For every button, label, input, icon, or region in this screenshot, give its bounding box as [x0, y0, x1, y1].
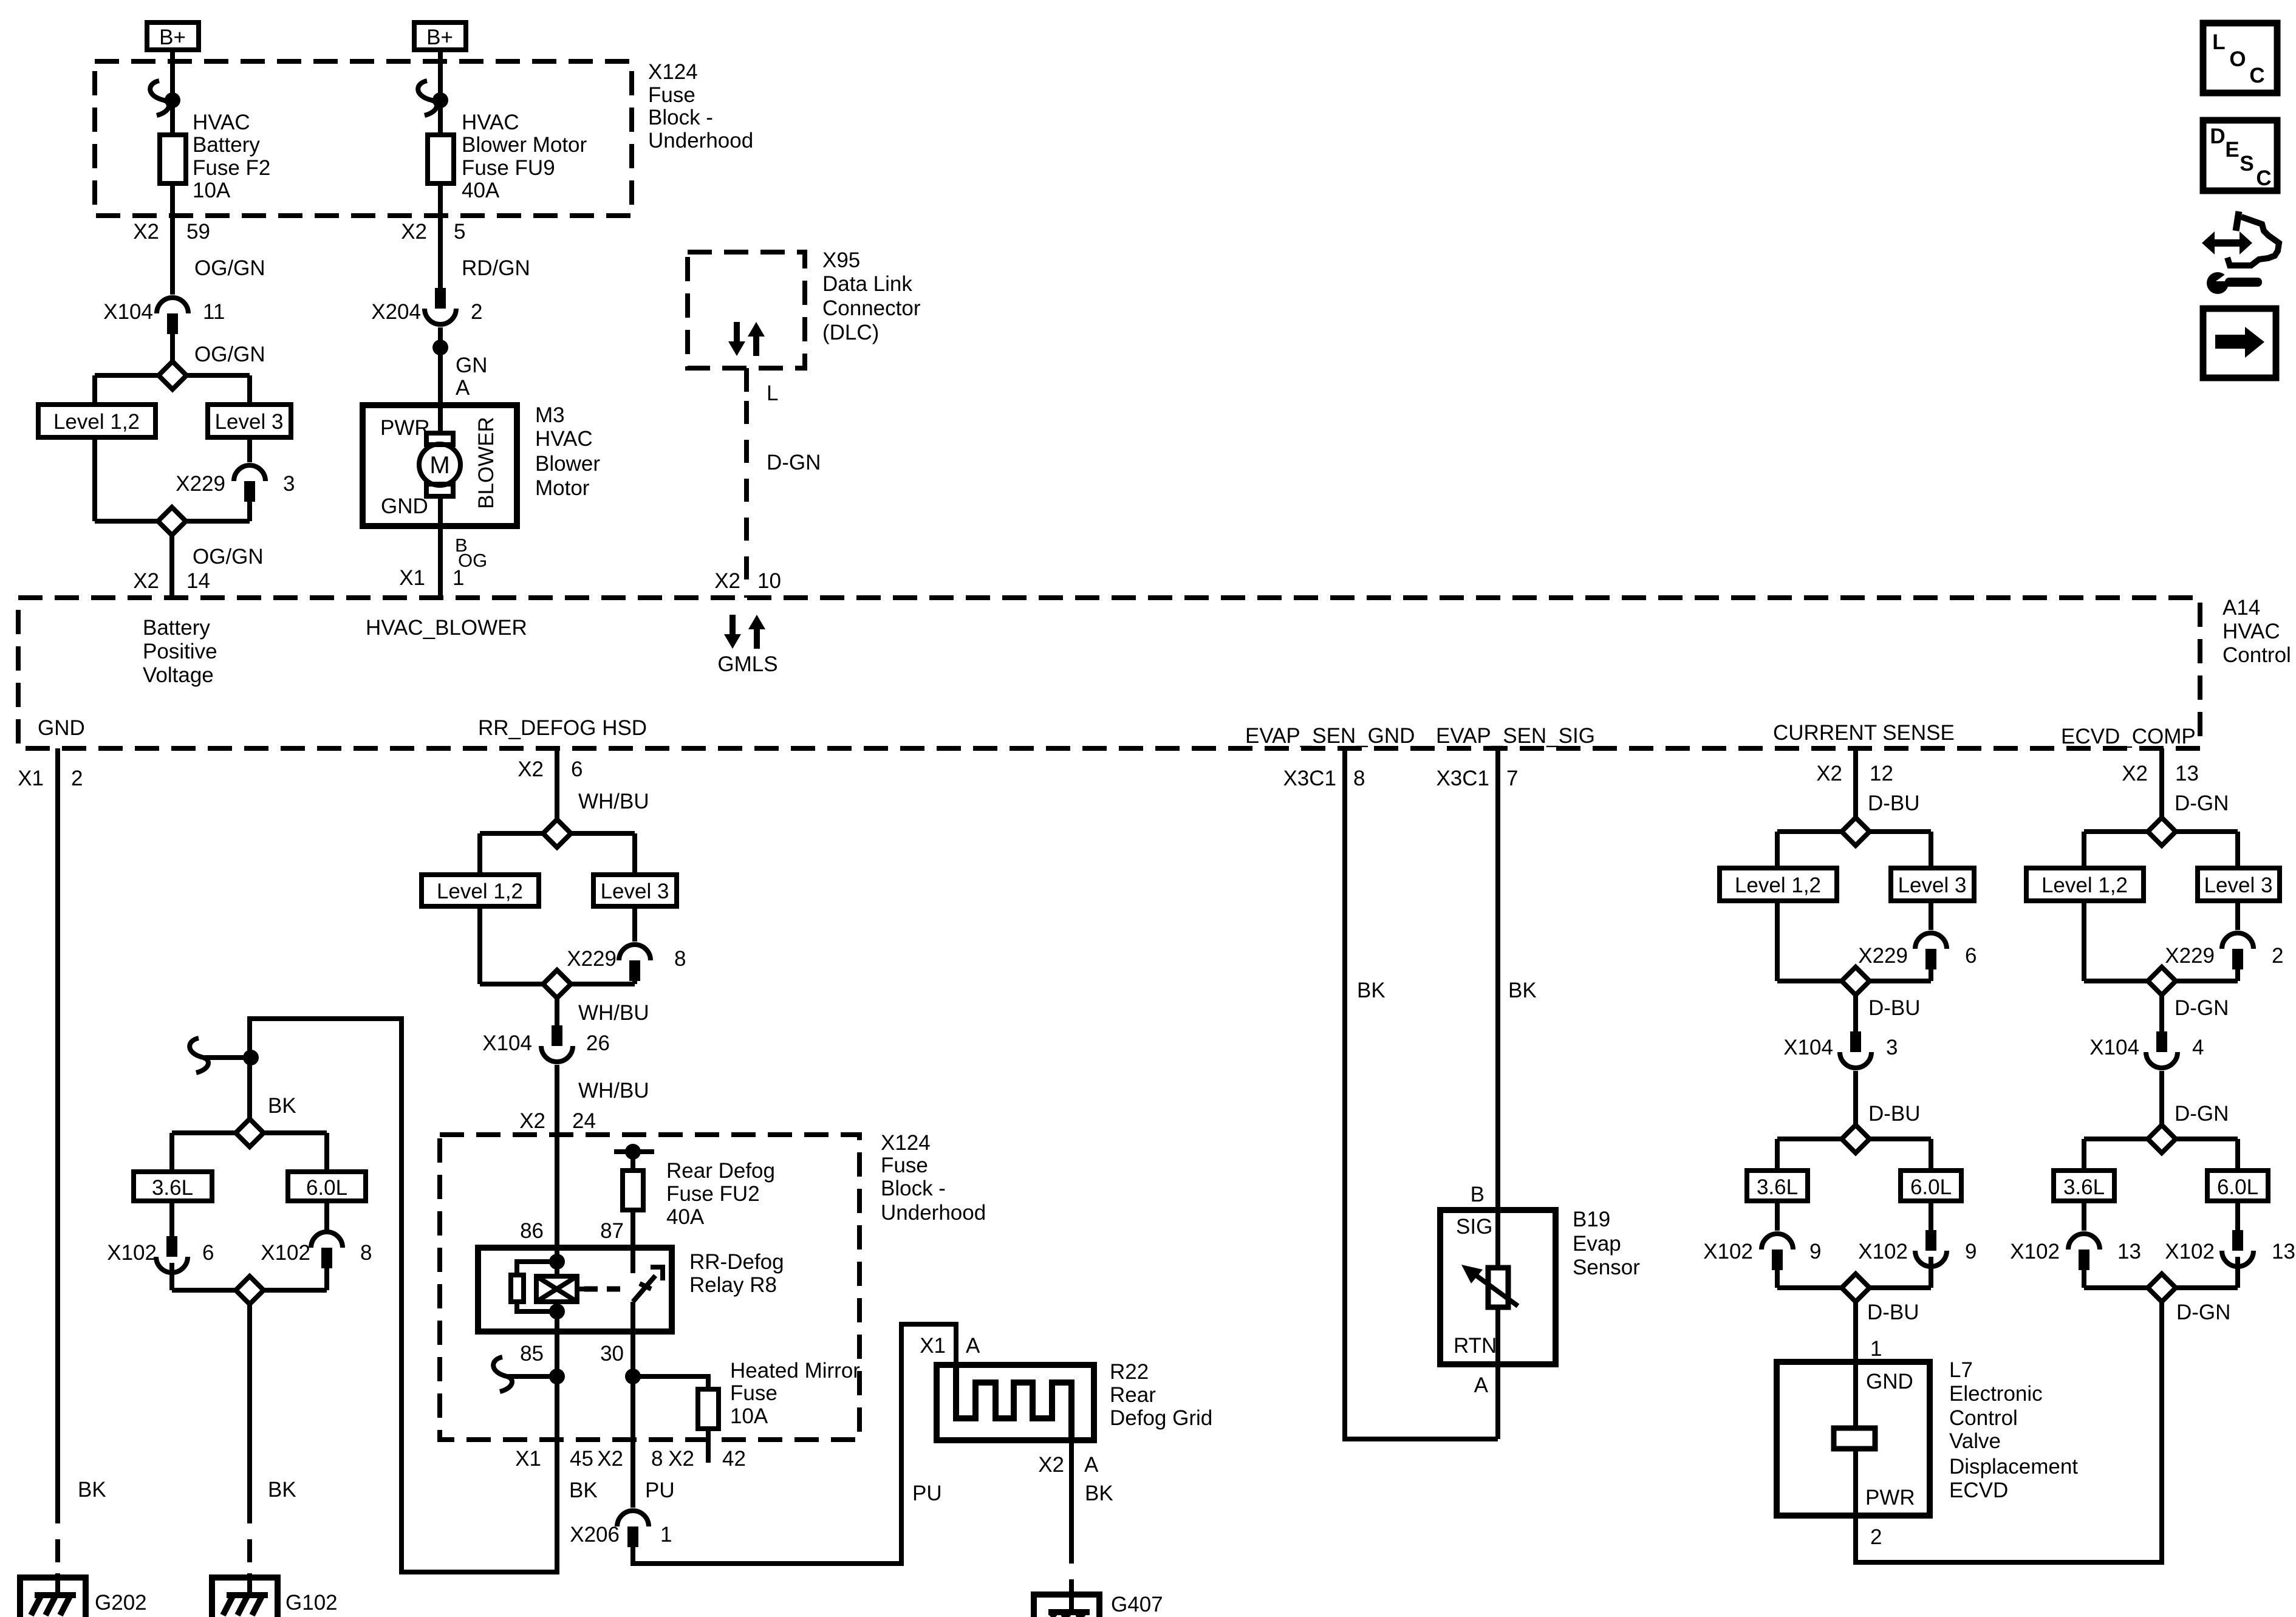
- svg-text:Control: Control: [1949, 1406, 2018, 1430]
- svg-text:Fuse FU9: Fuse FU9: [462, 156, 555, 180]
- svg-text:RR-Defog: RR-Defog: [689, 1250, 784, 1274]
- svg-text:Valve: Valve: [1949, 1429, 2001, 1453]
- svg-text:3.6L: 3.6L: [2063, 1175, 2105, 1199]
- net GMLS with arrows: [717, 615, 777, 676]
- svg-text:13: 13: [2175, 762, 2199, 785]
- splice diamond (engine split): [172, 1119, 327, 1147]
- svg-text:6: 6: [1965, 944, 1977, 968]
- svg-text:Level 1,2: Level 1,2: [53, 410, 140, 434]
- wire merge to connector X104 pin 26, WH/BU: [557, 998, 649, 1026]
- wire X104-26 to fuse block X2-24, WH/BU: [519, 1065, 649, 1248]
- svg-text:40A: 40A: [462, 179, 500, 202]
- svg-text:X229: X229: [567, 947, 617, 971]
- wire to 3.6L (current sense): [1775, 1139, 1780, 1171]
- svg-text:24: 24: [572, 1109, 596, 1133]
- svg-text:D-GN: D-GN: [2175, 1102, 2229, 1126]
- svg-text:3.6L: 3.6L: [152, 1176, 193, 1200]
- svg-text:4: 4: [2192, 1036, 2204, 1059]
- svg-text:10A: 10A: [193, 179, 231, 202]
- svg-text:X2: X2: [597, 1447, 623, 1471]
- fuse block X124 (lower dashed box): [440, 1135, 859, 1440]
- svg-text:D-BU: D-BU: [1867, 1301, 1919, 1324]
- svg-text:B+: B+: [159, 26, 186, 49]
- svg-text:X2: X2: [518, 757, 544, 781]
- wire merge to G102, BK: [250, 1304, 296, 1578]
- wire 3.6L to connector X102 pin 6: [169, 1201, 174, 1236]
- svg-text:BK: BK: [78, 1478, 106, 1502]
- fuse block X124 (top dashed box): [95, 61, 632, 216]
- wire to Level 1,2 box: [92, 375, 97, 405]
- svg-text:1: 1: [1870, 1337, 1882, 1361]
- svg-text:HVAC: HVAC: [193, 111, 250, 134]
- wire A14 X3C1-8 EVAP_SEN_GND, BK: [1283, 748, 1498, 1439]
- svg-text:87: 87: [600, 1219, 624, 1243]
- svg-text:EVAP_SEN_GND: EVAP_SEN_GND: [1245, 724, 1415, 748]
- merge splice diamond (ECVD): [2084, 967, 2238, 995]
- svg-text:A: A: [456, 376, 470, 400]
- connector X204 pin 2: [371, 288, 482, 324]
- wire 3.6L to connector X102 pin 13: [2082, 1201, 2086, 1231]
- svg-text:Block -: Block -: [648, 106, 713, 129]
- svg-text:Evap: Evap: [1573, 1232, 1621, 1256]
- wire DLC pin L, D-GN (dashed) to A14 X2-10: [714, 368, 821, 598]
- svg-text:D-GN: D-GN: [767, 451, 821, 474]
- svg-text:Level 1,2: Level 1,2: [1735, 873, 1821, 897]
- svg-text:O: O: [2229, 47, 2246, 71]
- svg-text:8: 8: [651, 1447, 663, 1471]
- wire Level 1,2 to merge (defog): [477, 906, 482, 984]
- merge splice diamond (circuit 1): [95, 507, 250, 535]
- svg-text:Fuse F2: Fuse F2: [193, 156, 270, 180]
- svg-text:RR_DEFOG HSD: RR_DEFOG HSD: [478, 716, 647, 740]
- svg-text:Level 3: Level 3: [215, 410, 284, 434]
- merge splice diamond (defog): [480, 970, 635, 998]
- svg-text:Block -: Block -: [881, 1177, 946, 1200]
- wire A14 X2-13 ECVD_COMP, D-GN: [2122, 748, 2229, 818]
- wire to 3.6L box: [169, 1133, 174, 1172]
- splice diamond (current sense level split): [1777, 818, 1931, 846]
- svg-text:9: 9: [1809, 1240, 1821, 1263]
- wire L7 pin 2 to ECVD_COMP return: [1856, 1302, 2162, 1562]
- svg-text:X124: X124: [881, 1131, 931, 1155]
- svg-text:G102: G102: [285, 1591, 338, 1615]
- svg-text:Voltage: Voltage: [143, 663, 214, 687]
- svg-text:X102: X102: [261, 1241, 310, 1265]
- svg-text:Level 3: Level 3: [1898, 873, 1967, 897]
- Level 1,2 box (circuit 1): [38, 405, 155, 437]
- svg-text:X229: X229: [1858, 944, 1908, 968]
- wire M3 pin B to A14 pin X1-1, OG: [399, 526, 487, 598]
- svg-text:G202: G202: [95, 1591, 147, 1615]
- svg-text:RTN: RTN: [1454, 1334, 1497, 1358]
- wire A14 X3C1-7 EVAP_SEN_SIG to B19 pin B, BK: [1436, 748, 1536, 1210]
- svg-text:HVAC: HVAC: [2223, 620, 2280, 643]
- svg-text:Electronic: Electronic: [1949, 1382, 2043, 1406]
- Level 1,2 box (ECVD): [2026, 868, 2144, 901]
- svg-text:Control: Control: [2223, 643, 2291, 667]
- svg-text:Rear: Rear: [1110, 1383, 1156, 1407]
- svg-text:X3C1: X3C1: [1436, 767, 1489, 790]
- svg-text:Sensor: Sensor: [1573, 1256, 1640, 1279]
- connector X229 pin 2: [2165, 933, 2283, 969]
- merge splice diamond (current sense engine): [1777, 1274, 1931, 1302]
- svg-text:5: 5: [454, 220, 465, 244]
- svg-text:(DLC): (DLC): [822, 321, 879, 344]
- svg-text:OG/GN: OG/GN: [194, 343, 265, 366]
- connector X104 pin 11: [103, 298, 225, 334]
- motor symbol M: [419, 405, 460, 526]
- Level 3 box (defog): [593, 875, 677, 906]
- Level 1,2 box (defog): [422, 875, 539, 906]
- 3.6L box (current sense): [1747, 1171, 1808, 1201]
- svg-text:8: 8: [1353, 767, 1365, 790]
- svg-text:Defog Grid: Defog Grid: [1110, 1406, 1212, 1430]
- svg-text:D-BU: D-BU: [1868, 791, 1920, 815]
- svg-text:X104: X104: [482, 1031, 532, 1055]
- svg-text:Level 1,2: Level 1,2: [2041, 873, 2128, 897]
- splice diamond (current sense engine split): [1777, 1125, 1931, 1153]
- svg-text:13: 13: [2117, 1240, 2141, 1263]
- svg-text:X1: X1: [399, 566, 425, 590]
- wire X229 to merge diamond: [247, 501, 252, 521]
- svg-text:X1: X1: [515, 1447, 541, 1471]
- relay coil with suppression resistor: [511, 1248, 577, 1332]
- Level 3 box (circuit 1): [208, 405, 291, 437]
- fuse FU2 (Rear Defog Fuse FU2 40A): [623, 1159, 775, 1229]
- svg-text:GND: GND: [1866, 1370, 1913, 1393]
- wire Level 1,2 to merge (ECVD): [2082, 901, 2086, 981]
- svg-text:A: A: [1474, 1373, 1489, 1397]
- svg-text:11: 11: [203, 300, 225, 324]
- svg-text:X102: X102: [1858, 1240, 1908, 1263]
- svg-text:Level 3: Level 3: [2204, 873, 2273, 897]
- wire to merge (ECVD engine): [2235, 1257, 2240, 1288]
- wire 6.0L to connector X102 pin 8: [324, 1201, 329, 1230]
- svg-text:BK: BK: [1508, 979, 1537, 1002]
- svg-text:X2: X2: [133, 220, 159, 244]
- svg-text:Fuse FU2: Fuse FU2: [666, 1182, 760, 1206]
- svg-text:EVAP_SEN_SIG: EVAP_SEN_SIG: [1436, 724, 1595, 748]
- svg-text:85: 85: [520, 1342, 544, 1366]
- 6.0L box (current sense): [1901, 1171, 1961, 1201]
- wire A14 X2-12 CURRENT SENSE, D-BU: [1816, 748, 1919, 818]
- svg-text:40A: 40A: [666, 1205, 705, 1229]
- svg-text:C: C: [2249, 64, 2264, 87]
- wire to Level 1,2 (current sense): [1775, 832, 1780, 868]
- blower motor M3 box: [363, 405, 517, 526]
- wire X104 to splice diamond, OG/GN: [173, 331, 265, 366]
- svg-text:OG/GN: OG/GN: [193, 545, 264, 569]
- node B+ (battery feed 2): [414, 22, 466, 50]
- wire relay 30 down to X206, PU: [597, 1332, 674, 1508]
- svg-text:86: 86: [520, 1219, 544, 1243]
- svg-text:D-BU: D-BU: [1868, 996, 1921, 1020]
- wire merge to L7 pin 1, D-BU: [1856, 1301, 1919, 1362]
- svg-text:9: 9: [1965, 1240, 1977, 1263]
- 3.6L box (ground): [134, 1172, 212, 1201]
- ground G202: [20, 1573, 147, 1617]
- svg-text:BK: BK: [1085, 1482, 1113, 1505]
- svg-text:X2: X2: [714, 569, 740, 593]
- svg-text:14: 14: [186, 569, 210, 593]
- svg-text:X102: X102: [1703, 1240, 1753, 1263]
- wire 6.0L to connector X102 pin 9 (right): [1929, 1201, 1933, 1230]
- connector X229 pin 3: [176, 465, 295, 502]
- svg-text:PU: PU: [912, 1482, 942, 1505]
- wire fuse FU9 to connector X204 pin 2, RD/GN: [401, 183, 530, 289]
- icon vehicle with double arrow: [2202, 211, 2279, 265]
- svg-text:M: M: [429, 452, 449, 479]
- svg-text:30: 30: [600, 1342, 624, 1366]
- relay coil-to-contact dashed link: [577, 1287, 584, 1291]
- svg-text:BLOWER: BLOWER: [474, 417, 498, 509]
- wire X102-9 to merge: [1775, 1270, 1780, 1288]
- connector X102 pin 6: [107, 1236, 214, 1273]
- wire from B+ to fuse F2: [150, 50, 180, 135]
- wire Level 3 to connector X229 pin 3: [247, 437, 252, 462]
- svg-text:S: S: [2240, 152, 2253, 176]
- svg-text:X2: X2: [401, 220, 427, 244]
- svg-text:Fuse: Fuse: [648, 83, 695, 107]
- wire A14 X2-6 RR_DEFOG to splice, WH/BU: [518, 748, 649, 819]
- svg-text:7: 7: [1506, 767, 1518, 790]
- svg-text:HVAC: HVAC: [535, 427, 593, 451]
- wire to Level 1,2 (defog): [477, 833, 482, 875]
- svg-text:D-GN: D-GN: [2175, 996, 2229, 1020]
- svg-text:X1: X1: [18, 767, 44, 790]
- merge splice diamond (current sense): [1777, 967, 1931, 995]
- svg-text:X2: X2: [133, 569, 159, 593]
- wire to 6.0L box: [324, 1133, 329, 1172]
- wire X229-2 to merge (ECVD): [2235, 969, 2240, 981]
- svg-text:BK: BK: [268, 1094, 296, 1118]
- connector X102 pin 9 (left): [1703, 1234, 1821, 1270]
- svg-text:6.0L: 6.0L: [1910, 1175, 1952, 1199]
- svg-text:Fuse: Fuse: [730, 1381, 777, 1405]
- connector X102 pin 13 (left): [2010, 1234, 2141, 1270]
- svg-text:6.0L: 6.0L: [2217, 1175, 2258, 1199]
- wire to Level 1,2 (ECVD): [2082, 832, 2086, 868]
- wire X102-6 to merge: [169, 1263, 174, 1290]
- svg-text:B+: B+: [426, 26, 453, 49]
- RR-Defog Relay R8 box: [478, 1248, 672, 1332]
- svg-text:1: 1: [660, 1523, 672, 1547]
- svg-text:BK: BK: [569, 1479, 598, 1502]
- DLC serial data arrows: [728, 322, 765, 356]
- wire 3.6L to connector X102 pin 9: [1775, 1201, 1780, 1231]
- defog grid element (meander): [956, 1365, 1071, 1440]
- connector X104 pin 3: [1783, 1031, 1898, 1068]
- svg-text:X102: X102: [107, 1241, 157, 1265]
- svg-text:OG/GN: OG/GN: [194, 256, 265, 280]
- svg-text:G407: G407: [1111, 1593, 1163, 1616]
- svg-text:6: 6: [571, 757, 583, 781]
- svg-text:BK: BK: [1357, 979, 1385, 1002]
- splice tap hook on ground bus: [190, 1038, 259, 1073]
- svg-text:Rear Defog: Rear Defog: [666, 1159, 775, 1183]
- wire X104-4 to engine splice, D-GN: [2162, 1071, 2229, 1126]
- evap sensor B19 box: [1440, 1210, 1556, 1364]
- Level 3 box (ECVD): [2198, 868, 2280, 901]
- wire X206 to rear defog grid R22, PU: [633, 1324, 980, 1564]
- icon wrench: [2207, 270, 2262, 294]
- wire Level 3 to connector X229 pin 2: [2235, 901, 2240, 930]
- merge splice diamond (ECVD engine): [2084, 1274, 2238, 1302]
- merge splice diamond (engine merge): [172, 1276, 327, 1304]
- svg-text:D-BU: D-BU: [1868, 1102, 1921, 1126]
- relay switch contact: [633, 1248, 663, 1332]
- svg-text:3: 3: [283, 472, 295, 496]
- svg-text:HVAC_BLOWER: HVAC_BLOWER: [366, 616, 527, 640]
- svg-text:PU: PU: [645, 1479, 675, 1502]
- wire to Level 3 (ECVD): [2235, 832, 2240, 868]
- svg-text:B19: B19: [1573, 1208, 1610, 1231]
- svg-text:X3C1: X3C1: [1283, 767, 1336, 790]
- wire 6.0L to connector X102 pin 13 (right): [2235, 1201, 2240, 1230]
- svg-text:GND: GND: [38, 716, 85, 740]
- splice diamond (level split): [95, 361, 250, 389]
- rear defog grid R22 box: [937, 1365, 1094, 1440]
- connector X229 pin 8: [567, 945, 686, 981]
- connector X102 pin 8: [261, 1232, 372, 1268]
- svg-text:X1: X1: [920, 1334, 946, 1358]
- svg-text:1: 1: [453, 566, 464, 590]
- svg-text:RD/GN: RD/GN: [462, 256, 530, 280]
- svg-text:Relay R8: Relay R8: [689, 1273, 777, 1297]
- fuse F2 (HVAC Battery Fuse F2 10A): [160, 111, 270, 202]
- svg-text:Motor: Motor: [535, 476, 590, 500]
- svg-text:L7: L7: [1949, 1358, 1973, 1382]
- svg-text:2: 2: [1870, 1525, 1882, 1549]
- svg-text:X124: X124: [648, 60, 698, 84]
- branch to heated mirror fuse: [633, 1376, 708, 1389]
- svg-text:PWR: PWR: [380, 416, 430, 440]
- svg-text:X2: X2: [519, 1109, 545, 1133]
- wire from B+ to fuse FU9: [418, 50, 448, 135]
- wire Level 1,2 to merge (current sense): [1775, 901, 1780, 981]
- wire merge to connector X104 pin 3, D-BU: [1856, 995, 1921, 1031]
- svg-text:3: 3: [1886, 1036, 1898, 1059]
- svg-text:Displacement: Displacement: [1949, 1455, 2078, 1479]
- wire X104-3 to engine splice, D-BU: [1856, 1071, 1921, 1126]
- ECVD L7 box: [1777, 1362, 1930, 1516]
- svg-text:X104: X104: [1783, 1036, 1833, 1059]
- heated mirror fuse (Heated Mirror Fuse 10A): [698, 1359, 860, 1429]
- svg-text:X204: X204: [371, 300, 421, 324]
- svg-text:6: 6: [202, 1241, 214, 1265]
- svg-text:Underhood: Underhood: [648, 129, 753, 152]
- splice diamond (defog level split): [480, 819, 635, 847]
- svg-text:X104: X104: [2089, 1036, 2139, 1059]
- 6.0L box (ECVD): [2207, 1171, 2268, 1201]
- X1-45 BK labels: [515, 1447, 598, 1502]
- wire to Level 3 box: [247, 375, 252, 405]
- wire to Level 3 (current sense): [1929, 832, 1933, 868]
- wire to 6.0L (ECVD): [2235, 1139, 2240, 1171]
- wire relay 85 to ground bus with splice hook: [493, 1332, 565, 1464]
- wire Level 3 to connector X229 pin 6: [1929, 901, 1933, 930]
- svg-text:Fuse: Fuse: [881, 1154, 928, 1177]
- svg-text:A14: A14: [2223, 596, 2260, 620]
- svg-text:CURRENT SENSE: CURRENT SENSE: [1773, 721, 1955, 745]
- ground G407: [1034, 1590, 1163, 1617]
- svg-text:D-GN: D-GN: [2175, 791, 2229, 815]
- svg-text:X95: X95: [822, 248, 860, 272]
- wire R22 X2-A to G407, BK: [1038, 1440, 1113, 1595]
- connector X104 pin 26: [482, 1025, 610, 1062]
- wire to 3.6L (ECVD): [2082, 1139, 2086, 1171]
- svg-text:GND: GND: [381, 494, 428, 518]
- wire X229-6 to merge (current sense): [1929, 969, 1933, 981]
- wire X102-8 to merge: [324, 1265, 329, 1290]
- wire Level 3 to connector X229 pin 8: [632, 906, 637, 942]
- ground G102: [212, 1573, 338, 1617]
- connector X104 pin 4: [2089, 1031, 2204, 1068]
- svg-text:Battery: Battery: [143, 616, 210, 640]
- svg-text:C: C: [2256, 166, 2271, 190]
- svg-text:10A: 10A: [730, 1404, 768, 1428]
- svg-text:Positive: Positive: [143, 640, 217, 663]
- svg-text:10: 10: [757, 569, 781, 593]
- Level 1,2 box (current sense): [1720, 868, 1837, 901]
- node B+ (battery feed 1): [147, 22, 199, 50]
- valve coil symbol in L7: [1834, 1362, 1875, 1516]
- wire X229-8 to merge (defog): [632, 980, 637, 984]
- wire Level 1,2 to merge: [92, 437, 97, 521]
- svg-text:L: L: [767, 381, 778, 405]
- svg-text:8: 8: [674, 947, 686, 971]
- svg-text:X102: X102: [2010, 1240, 2060, 1263]
- 3.6L box (ECVD): [2054, 1171, 2114, 1201]
- svg-text:X2: X2: [1038, 1453, 1064, 1477]
- svg-text:HVAC: HVAC: [462, 111, 519, 134]
- svg-text:M3: M3: [535, 403, 565, 427]
- svg-text:2: 2: [2272, 944, 2283, 968]
- wire fuse F2 to connector X104 pin 11, OG/GN: [133, 183, 265, 295]
- svg-text:D-GN: D-GN: [2176, 1301, 2230, 1324]
- svg-text:X206: X206: [570, 1523, 620, 1547]
- svg-text:X229: X229: [2165, 944, 2215, 968]
- wire B19 pin A to ground return: [1474, 1364, 1498, 1439]
- svg-text:2: 2: [71, 767, 83, 790]
- svg-text:Blower: Blower: [535, 452, 600, 476]
- wire FU2 to relay pin 87: [600, 1210, 633, 1248]
- svg-text:WH/BU: WH/BU: [578, 1001, 649, 1025]
- svg-text:PWR: PWR: [1865, 1486, 1915, 1509]
- svg-text:SIG: SIG: [1456, 1215, 1492, 1239]
- data link connector X95 (DLC) dashed box: [688, 252, 805, 368]
- svg-text:X104: X104: [103, 300, 153, 324]
- wire X102-13 to merge: [2082, 1270, 2086, 1288]
- svg-text:26: 26: [586, 1031, 610, 1055]
- 6.0L box (ground): [288, 1172, 366, 1201]
- svg-text:Level 1,2: Level 1,2: [437, 880, 523, 903]
- wire merge to connector X104 pin 4, D-GN: [2162, 995, 2229, 1031]
- svg-text:ECVD_COMP: ECVD_COMP: [2061, 725, 2196, 748]
- fuse FU9 (HVAC Blower Motor Fuse FU9 40A): [428, 111, 587, 202]
- wire to 6.0L (current sense): [1929, 1139, 1933, 1171]
- svg-text:X2: X2: [2122, 762, 2148, 785]
- svg-text:6.0L: 6.0L: [306, 1176, 347, 1200]
- bus tap and dot above fuse FU2: [614, 1144, 654, 1171]
- svg-text:E: E: [2225, 138, 2239, 162]
- icon forward arrow box: [2203, 309, 2276, 378]
- svg-text:WH/BU: WH/BU: [578, 790, 649, 813]
- svg-text:13: 13: [2272, 1240, 2295, 1263]
- splice diamond (ECVD level split): [2084, 818, 2238, 846]
- svg-text:Connector: Connector: [822, 296, 921, 320]
- svg-text:X2: X2: [1816, 762, 1842, 785]
